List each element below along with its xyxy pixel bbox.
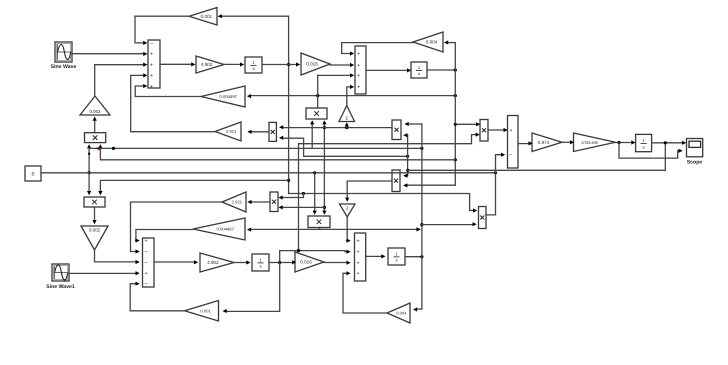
svg-text:Sine Wave1: Sine Wave1 — [46, 284, 75, 290]
svg-text:+: + — [357, 261, 360, 267]
wire product-A input1 from constant line — [88, 147, 90, 173]
svg-text:−: − — [145, 282, 148, 288]
sum block Sum1 (5 inputs) — [148, 40, 160, 88]
wire gain 4.902 to integrator1 — [224, 63, 240, 65]
wire product-V output to 2.921 upper input — [251, 131, 269, 133]
wire vertical 298 down to lower bus line — [298, 144, 300, 251]
node junction speed output to theta feedback — [664, 141, 667, 144]
wire bus top corner to 0.001 upper input — [222, 15, 289, 17]
wire 143-line jog into product-R1 input2 — [299, 135, 476, 144]
wire product-R1 output to Sum5 port1 — [488, 129, 504, 131]
wire gain 0.016 lower to Sum4 port3 — [324, 262, 347, 264]
wire gain-2 up-triangle output to Sum2 port4 — [347, 87, 350, 106]
wire 2.921 lower output to Sum3 port2 — [131, 202, 223, 252]
node junction bus to 2.921-line tap — [287, 179, 290, 182]
svg-text:0.004497: 0.004497 — [220, 94, 238, 99]
wire lower bus vertical 280 — [279, 251, 281, 312]
gain block 0.016 (lower) — [295, 252, 324, 272]
node junction integrator4 output on 422 — [420, 255, 423, 258]
wire speed integrator output to Scope input1 — [652, 142, 682, 144]
wire 0.004 lower output loop to Sum4 port4 — [343, 273, 387, 313]
wire Sum3 output to gain 4.902 lower — [154, 261, 194, 263]
wire Sum2 port3 feeder down through 95-line to product-T top — [317, 75, 319, 108]
node stray junction on product-A feeder — [88, 153, 90, 155]
wire 160-line from bus 456 to product-A input2 — [100, 147, 455, 160]
wire gain 0.974 to gain 1/783.496 — [562, 141, 570, 143]
svg-text:4.902: 4.902 — [207, 260, 219, 265]
integrator block 1/s (speed) — [636, 134, 652, 151]
source block Sine Wave1 — [52, 264, 69, 281]
wire integrator1 to gain 0.016 — [262, 64, 296, 66]
svg-text:s: s — [259, 264, 261, 269]
node junction on vertical 456 for 95-line — [454, 94, 457, 97]
svg-text:+: + — [357, 63, 360, 69]
node junction 456 to 160-line — [454, 158, 457, 161]
svg-text:s: s — [418, 71, 420, 76]
constant block 0 — [25, 166, 41, 181]
node junction 422 to 224-line — [420, 223, 423, 226]
gain block 2.921 (upper, left-facing) — [215, 122, 241, 141]
wire product-L output to gain-2 down-triangle — [347, 181, 392, 200]
svg-text:s: s — [252, 66, 254, 71]
wire 422 bottom corner into 0.004 lower input — [417, 308, 422, 310]
svg-text:2.921: 2.921 — [232, 200, 243, 205]
wire Sum2 output to integrator2 — [366, 69, 407, 71]
wire product-V input2 jog from 156-line — [283, 138, 408, 156]
integrator block 1/s (lower flux) — [388, 248, 405, 265]
product block (upper horizontal multiplier) — [306, 108, 327, 119]
svg-text:0.001: 0.001 — [201, 14, 213, 19]
wire bus 456 top corner into 0.004 upper input — [448, 42, 455, 44]
wire column corner into product-L input1 — [406, 175, 409, 177]
wire integrator2 output to vertical bus 456 — [427, 69, 455, 71]
wire stub into product-X input1 — [283, 194, 304, 198]
svg-text:2.921: 2.921 — [226, 129, 237, 134]
wire gain 1/783.496 to speed integrator — [616, 142, 632, 144]
node junction 456 to product-R1 stub — [454, 123, 457, 126]
wire Sine Wave to Sum1 port2 — [72, 53, 143, 55]
svg-text:+: + — [357, 238, 360, 244]
node junction constant line end on sum5 feeder — [494, 171, 497, 174]
product block (lower horizontal multiplier) — [308, 216, 330, 228]
wire Sum4 output to integrator4 — [366, 255, 382, 257]
node junction 148-line on vertical 422 — [420, 147, 423, 150]
gain block 0.002 (down-facing triangle) — [81, 226, 108, 250]
wire long feed into 0.004497 upper input — [251, 95, 455, 97]
svg-text:0.001: 0.001 — [200, 308, 211, 313]
gain block 0.004 (upper, left-facing) — [413, 32, 443, 52]
scope block Scope — [687, 139, 703, 157]
wire 193-line from bus corner to torque product 2 — [289, 194, 473, 211]
wire 185-line from bus 456 corner into product-L input2 — [407, 184, 455, 186]
gain block 0.001 (lower feedback, left-facing) — [185, 301, 219, 322]
node junction where product-T column meets 95-line — [316, 94, 319, 97]
wire integrator5 output with bus tap to 0.016 lower — [269, 262, 292, 264]
wire 180-line from bus to product-B input2 — [100, 180, 288, 192]
node junction on 148-line left — [112, 147, 115, 150]
wire gain 4.902 lower to integrator5 — [234, 262, 246, 264]
node junction vertical 298 on lower bus line — [297, 249, 300, 252]
wire lower bus top corner to Sum4 port2 — [280, 251, 347, 252]
node junction 156-line on vertical 407 — [406, 155, 409, 158]
wire torque product2 output up to Sum5 port2 — [486, 155, 501, 215]
svg-text:Sine Wave: Sine Wave — [51, 64, 77, 70]
svg-text:0.004: 0.004 — [396, 311, 407, 316]
wire vertical bus 456 — [454, 43, 456, 186]
node junction integrator2 output on 456 — [454, 68, 457, 71]
source block Sine Wave — [55, 42, 72, 62]
gain block 1/783.496 — [574, 133, 616, 152]
node junction column on 207-line — [323, 206, 326, 209]
svg-text:0.016: 0.016 — [306, 62, 318, 67]
wire 2.921 upper output to Sum1 port4 — [131, 75, 215, 131]
node junction constant line to product column — [88, 171, 91, 174]
svg-text:+: + — [357, 250, 360, 256]
wire product-B output to 0.002 down-triangle — [94, 207, 96, 222]
product block (left column lower multiplier) — [84, 197, 105, 207]
wire gain-2 down-triangle output to Sum4 port1 — [346, 217, 349, 241]
wire vertical 422 — [421, 124, 423, 309]
svg-text:+: + — [150, 52, 153, 58]
svg-text:+: + — [145, 238, 148, 244]
wire 207-line into product-X input2 — [283, 206, 325, 208]
wire theta 170-line to speed integrator output node — [408, 169, 666, 171]
sum block Sum4 (4 inputs) — [355, 233, 366, 281]
svg-text:+: + — [357, 73, 360, 79]
node junction on integrator1 output — [287, 63, 290, 66]
gain block 0.002 (up-facing triangle) — [80, 96, 110, 115]
product block (right mid upper multiplier) — [392, 120, 401, 140]
wire integrator4 output to vertical 422 — [405, 256, 422, 258]
wire product-B input1 from constant junction — [88, 173, 90, 193]
sum block Sum3 (5 inputs) — [143, 238, 155, 287]
wire 148-line across diagram — [89, 147, 422, 149]
wire product-U input2 and product-L input1 column — [407, 135, 409, 176]
gain block 0.004 (lower, left-facing) — [387, 303, 410, 323]
svg-text:+: + — [150, 62, 153, 68]
node junction column on 127-line — [323, 126, 326, 129]
wire product-A output to 0.002 up-triangle — [94, 119, 96, 133]
svg-text:+: + — [357, 271, 360, 277]
gain block 4.902 (upper) — [196, 56, 224, 73]
node junction constant line to product-W feeder — [313, 171, 316, 174]
svg-text:0.004: 0.004 — [426, 40, 438, 45]
svg-text:0.002: 0.002 — [90, 109, 102, 114]
gain block 0.016 (upper) — [301, 53, 330, 75]
gain block 0.974 — [532, 133, 562, 152]
svg-text:Scope: Scope — [687, 160, 703, 166]
svg-text:s: s — [395, 258, 397, 263]
wire 229-line product-W output to 0.004497 lower and vertical 422 — [251, 228, 417, 230]
integrator block 1/s (upper flux) — [411, 62, 427, 78]
dangling red arrow on 148-line — [96, 146, 100, 150]
integrator block 1/s (lower d-axis) — [252, 254, 269, 271]
product block (right mid lower multiplier) — [392, 170, 400, 192]
svg-text:s: s — [643, 144, 645, 149]
svg-text:+: + — [150, 84, 153, 90]
wire 0.001 upper output loop to Sum1 port1 — [135, 16, 189, 43]
wire 0.004 upper output loop to Sum2 port1 — [342, 43, 413, 54]
wire vertical bus from node at 0.016 input down to lower products — [288, 16, 290, 193]
svg-text:0: 0 — [32, 172, 35, 178]
wire 0.004497 lower output loop to Sum3 port1 — [136, 230, 194, 241]
wire product-W input1 feeder — [314, 173, 316, 213]
wire gain-2 up-triangle input — [346, 125, 348, 128]
svg-text:−: − — [510, 153, 513, 159]
gain block 2 (lower, down-facing) — [340, 204, 356, 217]
node junction 193-line stub to product-X — [302, 192, 305, 195]
svg-text:0.016: 0.016 — [300, 260, 312, 265]
wire stub into product-R1 input1 — [455, 123, 476, 125]
wire Sine Wave1 to Sum3 port4 — [69, 272, 136, 274]
svg-text:+: + — [357, 85, 360, 91]
svg-text:+: + — [357, 51, 360, 57]
svg-text:1/783.496: 1/783.496 — [581, 141, 598, 145]
svg-text:−: − — [145, 249, 148, 255]
gain block 4.902 (lower) — [200, 253, 234, 272]
gain block 0.004497 (lower, left-facing) — [193, 218, 245, 240]
node junction integrator5 output to lower bus — [278, 261, 281, 264]
svg-text:0.974: 0.974 — [538, 140, 550, 145]
product block (left column upper multiplier) — [85, 133, 106, 143]
wire 0.002 down-triangle output to Sum3 port3 — [95, 250, 136, 262]
product block (upper left-facing multiplier) — [269, 122, 276, 141]
svg-text:+: + — [150, 73, 153, 79]
wire column corner into product-U input2 — [406, 134, 409, 136]
wire corner into Sum2 port3 — [318, 74, 350, 76]
wire 224-line to torque product2 input2 — [422, 224, 473, 226]
product block (lower left-facing multiplier) — [270, 192, 278, 212]
wire 0.001 lower output loop to Sum3 port5 — [130, 284, 184, 311]
wire acceleration tap loop to Scope input2 — [619, 143, 679, 159]
wire 422 top corner into product-U input1 — [409, 123, 422, 125]
product block (torque multiplier 2) — [479, 207, 487, 229]
integrator block 1/s (upper d-axis) — [245, 57, 262, 73]
svg-text:−: − — [145, 260, 148, 266]
svg-text:−: − — [150, 41, 153, 47]
wire product-T bottom input 1 from 148-line — [311, 123, 313, 149]
node junction 127-line to gain-2 up-triangle — [345, 126, 348, 129]
product block (torque multiplier 1) — [480, 120, 488, 142]
wire product-U output line to product-V input1 — [283, 127, 392, 129]
gain block 2 (upper, up-facing) — [339, 106, 355, 122]
sum block Sum5 (torque sum) — [508, 116, 519, 169]
wire lower bus bottom corner to 0.001 lower input — [227, 310, 280, 312]
svg-text:+: + — [510, 128, 513, 134]
svg-text:0.002: 0.002 — [89, 228, 101, 233]
svg-text:4.902: 4.902 — [201, 62, 213, 67]
node junction theta line on column 407 — [406, 169, 409, 172]
wire product-X output to 2.921 lower — [251, 201, 270, 203]
svg-text:+: + — [145, 271, 148, 277]
gain block 0.004497 (upper, left-facing) — [201, 86, 245, 107]
gain block 0.001 (upper feedback, left-facing) — [189, 8, 217, 26]
wire Sum1 output to gain 4.902 — [160, 63, 191, 65]
gain block 2.921 (lower, left-facing) — [222, 192, 246, 212]
svg-text:0.004497: 0.004497 — [217, 227, 235, 232]
wire 0.002 up-triangle output to Sum1 port3 — [95, 65, 144, 96]
wire vertical product column T-to-W — [323, 123, 325, 213]
wire constant 0 line across diagram — [41, 172, 496, 174]
wire gain 0.016 to Sum2 port2 — [330, 64, 350, 66]
wire Sum5 output to gain 0.974 — [518, 143, 529, 145]
node junction acceleration tap — [617, 141, 620, 144]
wire 0.004497 upper output to Sum1 port5 — [135, 86, 201, 97]
sum block Sum2 (4 inputs) — [355, 46, 366, 94]
